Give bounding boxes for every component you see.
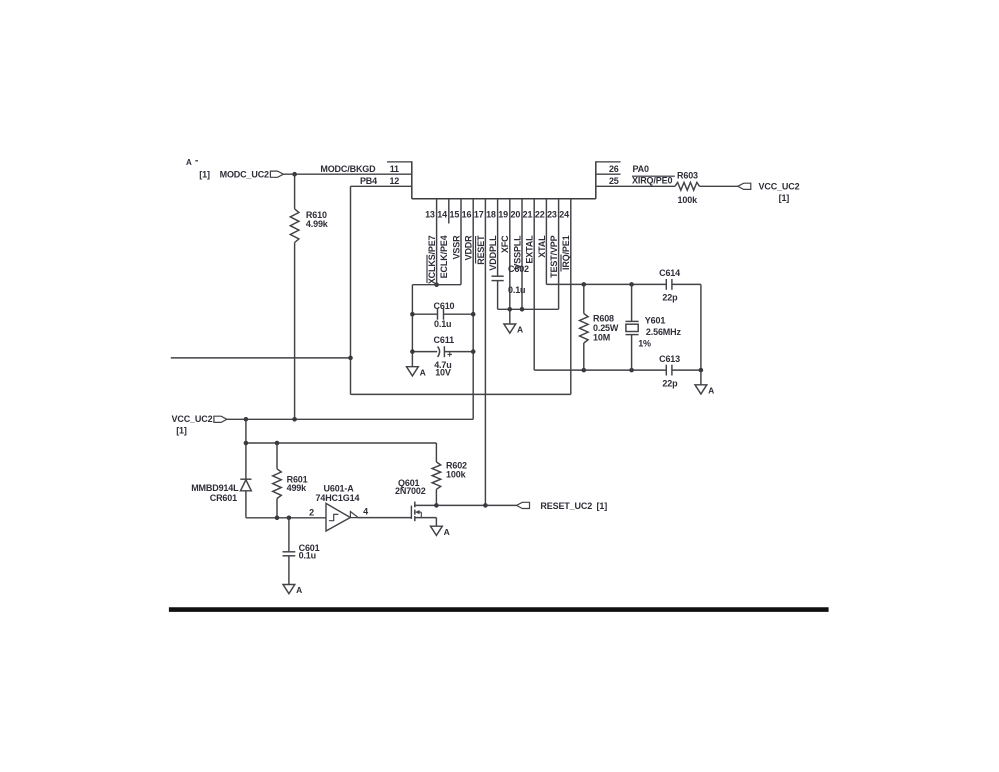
svg-text:Y601: Y601	[645, 316, 666, 326]
svg-text:17: 17	[474, 210, 484, 220]
wire crystal bottom rail	[534, 369, 701, 371]
ground C610/C611	[407, 367, 426, 378]
wire VCC rail	[227, 418, 473, 420]
svg-text:2: 2	[309, 508, 314, 518]
pin 26 stub wire PA0	[596, 173, 621, 175]
svg-text:11: 11	[390, 164, 399, 174]
pin 12 number	[389, 176, 399, 186]
thick border bar	[169, 607, 829, 612]
junction Y601 bottom	[629, 368, 634, 373]
label U601-A	[316, 484, 360, 503]
wire pin 21 EXTAL	[533, 199, 535, 370]
svg-text:19: 19	[498, 210, 508, 220]
label Y601	[638, 316, 681, 349]
svg-text:VDDR: VDDR	[464, 235, 474, 261]
label MMBD914L CR601	[191, 483, 239, 503]
junction R601 bottom	[275, 516, 280, 521]
svg-text:12: 12	[389, 176, 399, 186]
resistor R602	[432, 462, 441, 489]
resistor R610	[290, 209, 299, 243]
wire left stub	[171, 357, 351, 359]
svg-text:RESET_UC2: RESET_UC2	[540, 501, 592, 511]
junction Y601 top	[629, 282, 634, 287]
pin 15 label VSSR	[451, 235, 461, 260]
svg-text:A: A	[186, 158, 192, 167]
ground Q601 source	[431, 526, 450, 537]
svg-text:23: 23	[547, 210, 557, 220]
wire R608 top lead	[583, 284, 585, 313]
junction R601 top	[275, 441, 280, 446]
label C614	[659, 268, 680, 302]
svg-text:1%: 1%	[638, 338, 651, 348]
svg-text:100k: 100k	[446, 470, 467, 480]
svg-text:EXTAL: EXTAL	[525, 235, 535, 264]
svg-text:C610: C610	[434, 301, 455, 311]
wire diode bottom lead	[245, 491, 247, 518]
wire inverter output	[358, 517, 411, 519]
svg-text:499k: 499k	[287, 483, 308, 493]
svg-text:[1]: [1]	[199, 170, 210, 180]
wire reset node	[246, 517, 326, 519]
pin 11 label MODC/BKGD	[320, 164, 376, 174]
junction C610 right	[471, 312, 476, 317]
svg-text:22p: 22p	[662, 293, 678, 303]
pin 16 label VDDR	[464, 235, 474, 261]
svg-text:22: 22	[535, 210, 545, 220]
svg-text:C611: C611	[434, 335, 455, 345]
svg-text:2.56MHz: 2.56MHz	[646, 327, 682, 337]
label VCC_UC2 right	[759, 182, 800, 203]
resistor R603	[675, 182, 700, 190]
svg-text:20: 20	[510, 210, 520, 220]
pin 13 label XCLKS/PE7	[427, 235, 437, 284]
junction PB4/left stub	[348, 356, 353, 361]
wire source to ground	[435, 518, 437, 527]
pin 11 number	[390, 164, 399, 174]
svg-text:C613: C613	[659, 354, 680, 364]
label C610	[434, 301, 455, 329]
wire R610 top lead	[294, 174, 296, 209]
svg-text:4: 4	[363, 506, 368, 516]
label MODC_UC2	[220, 170, 269, 180]
svg-text:A: A	[296, 585, 302, 595]
wire PLL ground node	[498, 308, 559, 310]
wire drain to tag	[436, 504, 516, 506]
wire pin 22 XTAL	[545, 199, 547, 285]
wire crystal top rail	[546, 283, 701, 285]
junction XFC node	[508, 307, 513, 312]
wire crystal ground stem	[700, 370, 702, 385]
junction branch/rail443	[244, 441, 249, 446]
label R602	[446, 460, 467, 479]
wire pin 18 VDDPLL lower	[497, 281, 499, 310]
capacitor C610	[412, 309, 473, 320]
IC U601 MCU body (partial)	[387, 161, 621, 199]
wire R608 bottom lead	[583, 343, 585, 370]
svg-text:XFC: XFC	[500, 235, 510, 253]
pin 2 number	[309, 508, 314, 518]
svg-text:PA0: PA0	[633, 164, 650, 174]
connector RESET_UC2	[517, 502, 530, 508]
ground C602	[504, 324, 523, 335]
connector MODC_UC2	[270, 171, 283, 177]
wire pin 15	[460, 199, 462, 285]
wire R601 bottom lead	[276, 499, 278, 518]
junction C610 left	[410, 312, 415, 317]
wire net PB4-IRQ	[351, 393, 571, 395]
svg-text:TEST/VPP: TEST/VPP	[549, 235, 559, 277]
svg-text:0.1u: 0.1u	[299, 551, 316, 561]
svg-text:10M: 10M	[593, 332, 610, 342]
wire PB4 vertical	[350, 186, 352, 394]
svg-text:[1]: [1]	[176, 426, 187, 436]
resistor R608	[580, 314, 589, 344]
capacitor C614	[666, 279, 672, 290]
connector VCC_UC2 right	[738, 183, 751, 189]
pin 20 number	[510, 210, 520, 220]
wire C601 bottom lead	[288, 556, 290, 585]
svg-text:A: A	[420, 367, 426, 377]
pin 16 number	[462, 210, 472, 220]
pin 22 number	[535, 210, 545, 220]
pin 15 number	[449, 210, 459, 220]
ground C601	[283, 585, 302, 596]
svg-text:24: 24	[559, 210, 569, 220]
label Q601 2N7002	[395, 478, 426, 496]
pin 24 label IRQ/PE1	[561, 235, 571, 271]
junction R608 bottom	[582, 368, 587, 373]
pin 25 label XIRQ/PE0	[632, 176, 675, 186]
label C601	[299, 543, 320, 561]
pin 22 label XTAL	[537, 235, 547, 258]
svg-text:13: 13	[425, 210, 435, 220]
svg-text:[1]: [1]	[779, 193, 790, 203]
junction C601 top	[287, 516, 292, 521]
svg-text:2N7002: 2N7002	[395, 486, 426, 496]
wire pin 14 stub	[448, 199, 450, 224]
svg-text:C614: C614	[659, 268, 680, 278]
svg-text:VSSR: VSSR	[451, 235, 461, 260]
svg-text:A: A	[517, 325, 523, 335]
wire pin 25 XIRQ	[596, 185, 675, 187]
label [1] MODC	[199, 170, 210, 180]
svg-text:VDDPLL: VDDPLL	[488, 235, 498, 271]
label R601	[287, 475, 308, 494]
junction pin13/cap rail	[434, 282, 439, 287]
pin 23 number	[547, 210, 557, 220]
pin 18 label VDDPLL	[488, 235, 498, 271]
pin 17 number	[474, 210, 484, 220]
svg-text:10V: 10V	[435, 368, 451, 378]
pin 23 label TEST/VPP	[549, 235, 559, 277]
pin 26 label PA0	[633, 164, 650, 174]
junction RESET vertical	[483, 503, 488, 508]
svg-text:XIRQ/PE0: XIRQ/PE0	[632, 176, 672, 186]
svg-text:A: A	[708, 385, 714, 395]
wire pin 20 VSSPLL	[521, 199, 523, 309]
pin 18 number	[486, 210, 496, 220]
wire MODC to chip pin 11	[283, 173, 412, 175]
pin 13 number	[425, 210, 435, 220]
pin 21 number	[523, 210, 533, 220]
svg-text:16: 16	[462, 210, 472, 220]
wire R610 bottom lead	[294, 243, 296, 420]
svg-text:XTAL: XTAL	[537, 235, 547, 258]
junction MODC/R610	[292, 172, 297, 177]
label C611	[434, 335, 455, 377]
wire pin 23 TEST/VPP	[558, 199, 560, 309]
svg-text:18: 18	[486, 210, 496, 220]
wire PB4 horizontal	[351, 185, 412, 187]
svg-text:VCC_UC2: VCC_UC2	[172, 414, 213, 424]
pin 14 number	[437, 210, 447, 220]
pin 14 label ECLK/PE4	[439, 235, 449, 278]
svg-text:25: 25	[609, 176, 619, 186]
label C613	[659, 354, 680, 388]
junction VSSPLL node	[520, 307, 525, 312]
wire R601 R602 top rail	[246, 442, 437, 444]
svg-text:26: 26	[609, 164, 619, 174]
resistor R601	[273, 469, 282, 499]
junction drain/R602	[434, 503, 439, 508]
wire R603 to VCC tag	[700, 185, 738, 187]
capacitor C602	[492, 276, 504, 280]
pin 21 label EXTAL	[525, 235, 535, 264]
crystal Y601	[626, 321, 639, 334]
pin 25 number	[609, 176, 619, 186]
wire crystal right rail	[700, 284, 702, 370]
wire cap top rail	[412, 284, 461, 286]
svg-text:MMBD914L: MMBD914L	[191, 483, 239, 493]
transistor Q601 2N7002	[411, 502, 436, 522]
svg-text:XCLKS/PE7: XCLKS/PE7	[427, 235, 437, 284]
junction R608 top	[582, 282, 587, 287]
wire VCC branch down	[245, 419, 247, 479]
label C602	[508, 264, 529, 295]
connector VCC_UC2 left	[214, 416, 227, 422]
pin 24 number	[559, 210, 569, 220]
label RESET_UC2	[540, 501, 607, 511]
wire pin 13	[436, 199, 438, 285]
capacitor C611	[412, 346, 473, 357]
svg-text:RESET: RESET	[476, 235, 486, 265]
wire ground stem C602	[509, 309, 511, 324]
pin 19 number	[498, 210, 508, 220]
svg-text:IRQ/PE1: IRQ/PE1	[561, 235, 571, 270]
svg-text:CR601: CR601	[210, 493, 237, 503]
svg-text:A: A	[444, 527, 450, 537]
svg-text:0.1u: 0.1u	[508, 285, 525, 295]
svg-text:4.99k: 4.99k	[306, 219, 329, 229]
wire R602 bottom lead	[435, 489, 437, 505]
ground crystal	[695, 385, 714, 396]
wire pin 17 RESET vertical	[484, 199, 486, 506]
svg-text:MODC_UC2: MODC_UC2	[220, 170, 269, 180]
junction C613 right	[699, 368, 704, 373]
wire Y601 bottom lead	[631, 335, 633, 371]
junction VCC/R610	[292, 417, 297, 422]
svg-text:R603: R603	[677, 170, 698, 180]
pin 19 label XFC	[500, 235, 510, 253]
wire pin 18 VDDPLL upper	[497, 199, 499, 276]
svg-text:C602: C602	[508, 264, 529, 274]
junction C611 left	[410, 349, 415, 354]
pin 20 label VSSPLL	[512, 235, 522, 270]
svg-text:[1]: [1]	[597, 501, 608, 511]
svg-text:22p: 22p	[662, 378, 678, 388]
sheet note A	[186, 158, 198, 167]
wire R601 top lead	[276, 443, 278, 469]
junction C611 right	[471, 349, 476, 354]
svg-text:21: 21	[523, 210, 533, 220]
pin 12 label PB4	[360, 176, 377, 186]
capacitor C601	[283, 552, 296, 556]
svg-text:74HC1G14: 74HC1G14	[316, 493, 360, 503]
svg-text:15: 15	[449, 210, 459, 220]
pin 4 number	[363, 506, 368, 516]
wire pin 16 VDDR rail	[472, 199, 474, 419]
svg-text:0.1u: 0.1u	[434, 319, 451, 329]
svg-text:14: 14	[437, 210, 447, 220]
svg-text:VCC_UC2: VCC_UC2	[759, 182, 800, 192]
wire R602 top lead	[435, 443, 437, 462]
inverter U601-A 74HC1G14	[326, 503, 358, 531]
diode CR601	[240, 479, 251, 491]
capacitor C613	[666, 365, 672, 376]
svg-text:MODC/BKGD: MODC/BKGD	[320, 164, 376, 174]
label R610	[306, 210, 329, 229]
junction VCC/branch	[244, 417, 249, 422]
svg-text:ECLK/PE4: ECLK/PE4	[439, 235, 449, 278]
wire cap left rail	[411, 285, 413, 367]
label R608	[593, 314, 619, 343]
label R603	[677, 170, 698, 204]
svg-text:100k: 100k	[678, 195, 699, 205]
wire pin 19 XFC	[509, 199, 511, 309]
wire pin 24 IRQ/PE1 vertical	[570, 199, 572, 395]
wire Y601 top lead	[631, 284, 633, 321]
pin 26 number	[609, 164, 619, 174]
label VCC_UC2 left	[172, 414, 213, 436]
pin 17 label RESET	[476, 235, 486, 265]
wire C601 top lead	[288, 518, 290, 551]
svg-text:PB4: PB4	[360, 176, 377, 186]
